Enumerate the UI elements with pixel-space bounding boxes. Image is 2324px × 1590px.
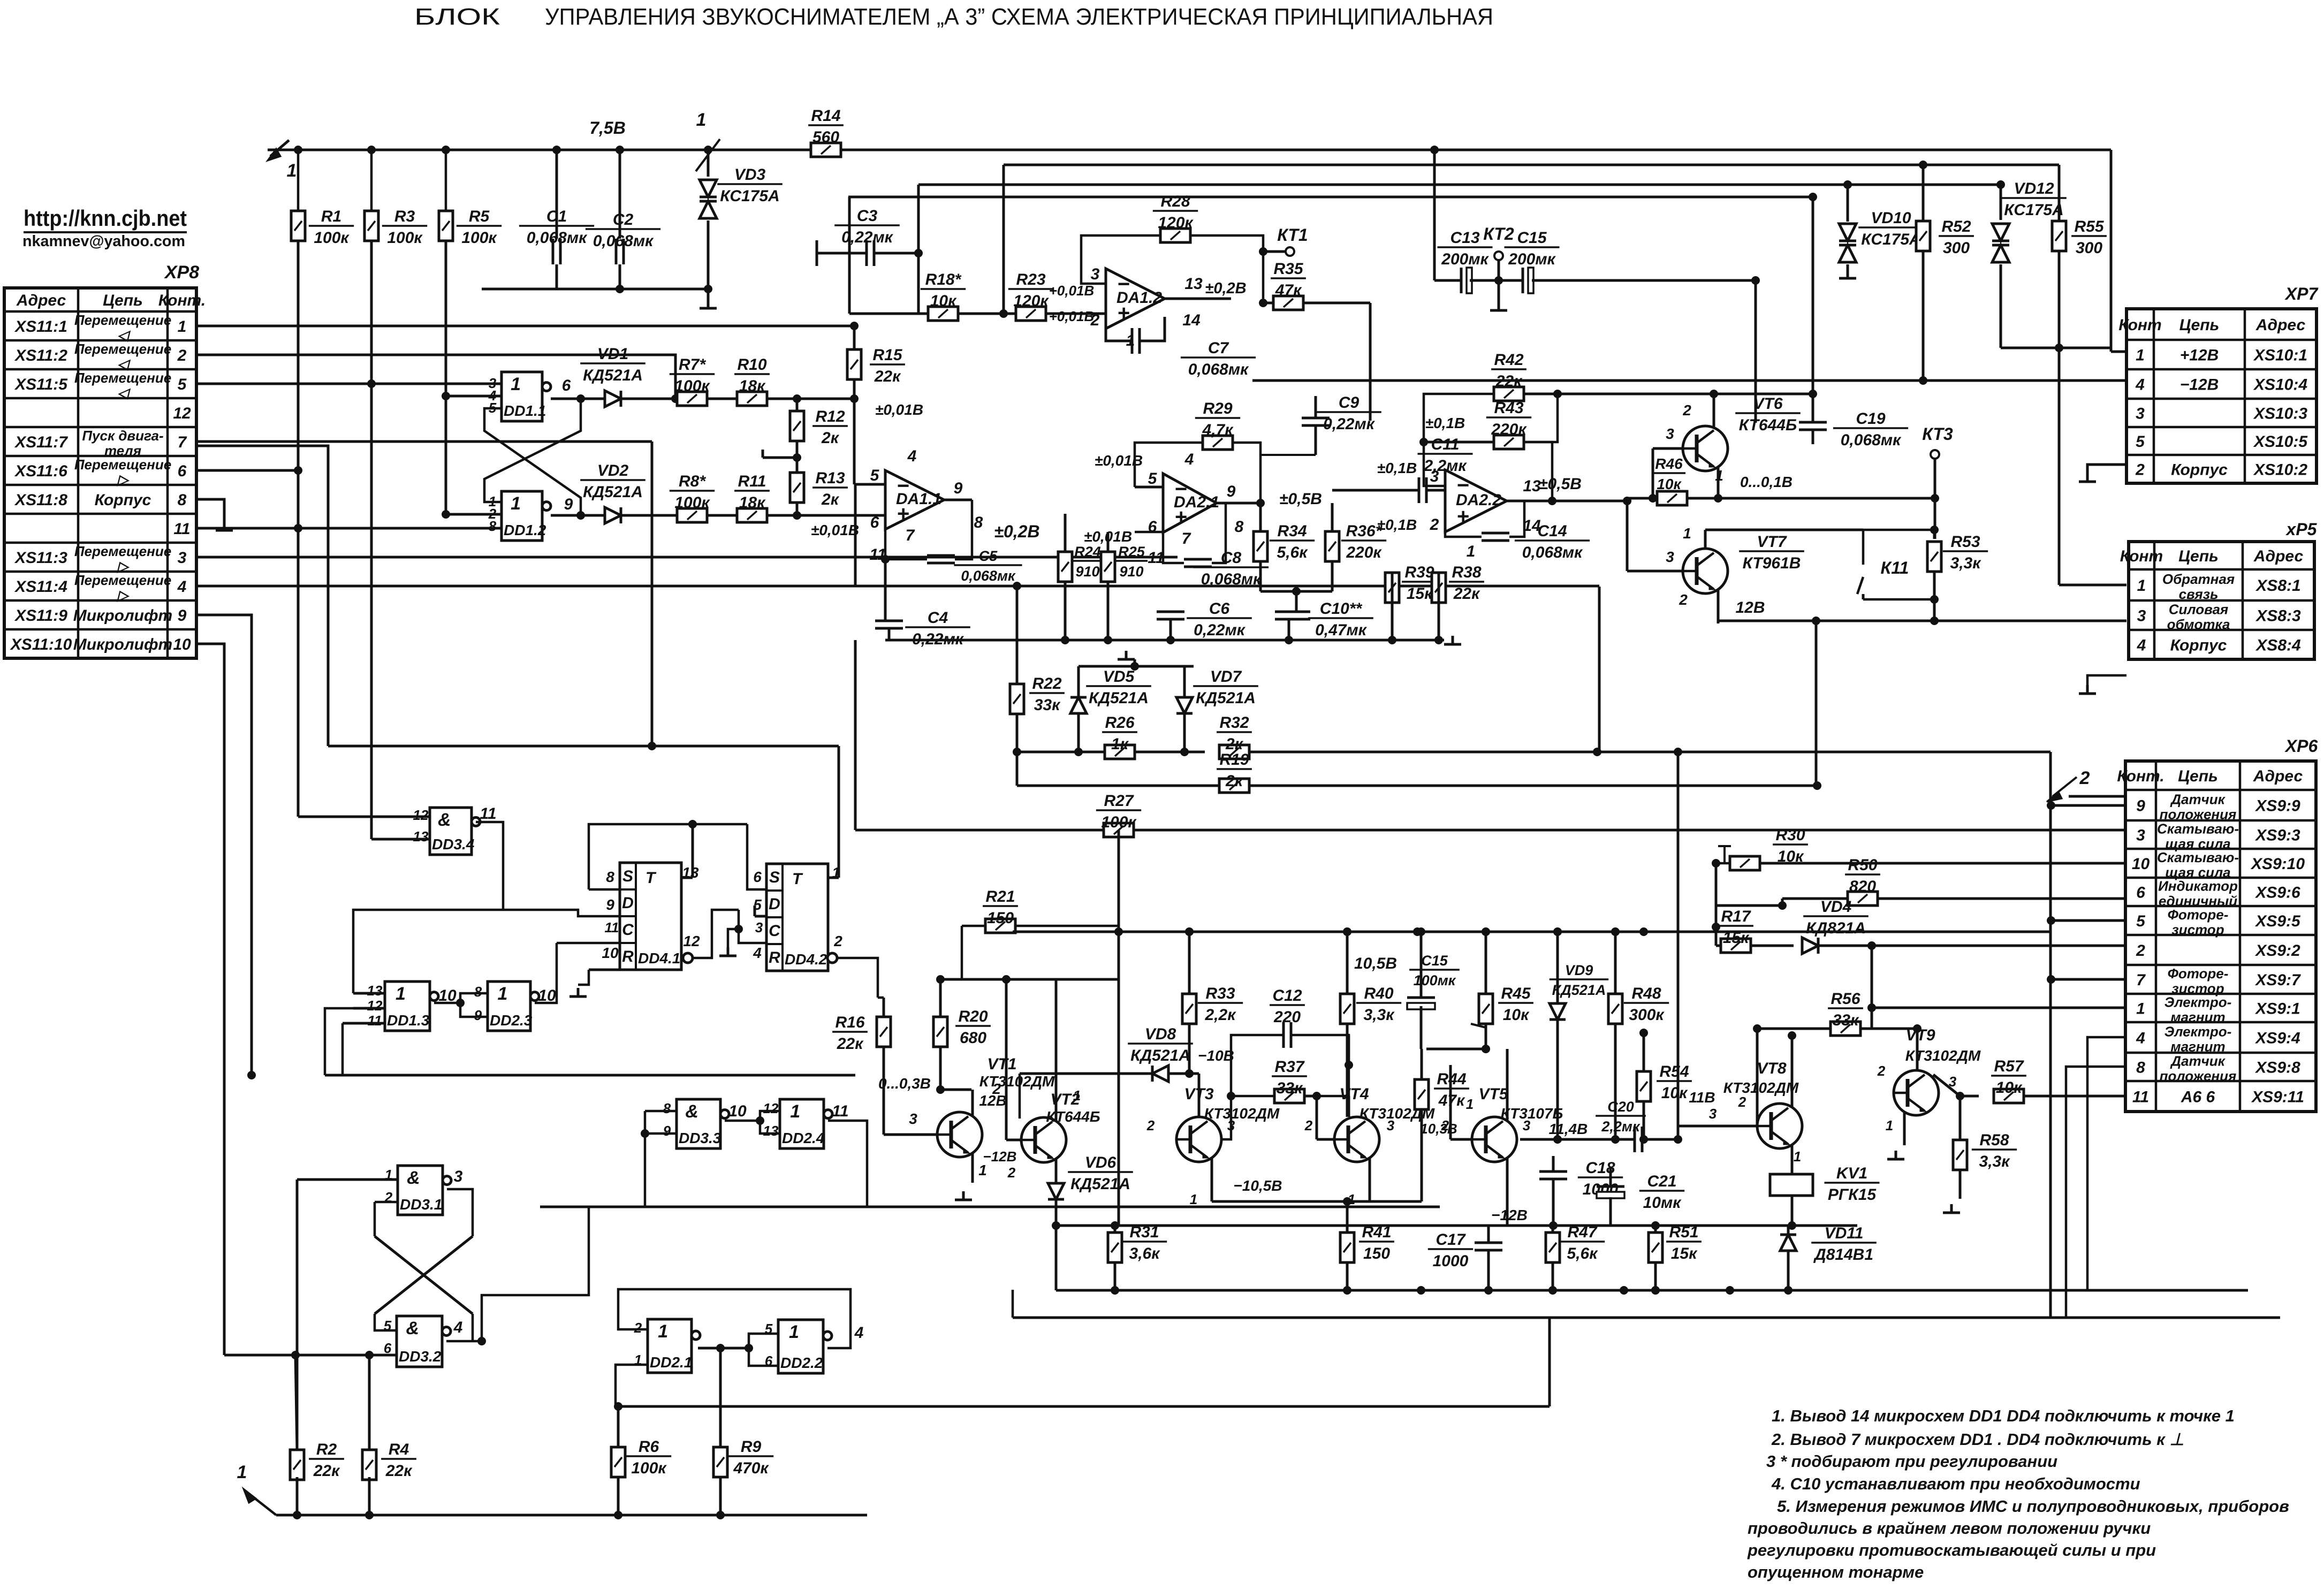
svg-text:4: 4 bbox=[907, 447, 917, 465]
svg-text:5: 5 bbox=[2136, 433, 2145, 451]
svg-text:R40: R40 bbox=[1364, 985, 1393, 1002]
svg-text:T: T bbox=[792, 870, 803, 888]
svg-text:3: 3 bbox=[1523, 1117, 1531, 1133]
svg-text:1: 1 bbox=[658, 1321, 668, 1342]
svg-text:R32: R32 bbox=[1219, 714, 1249, 732]
svg-text:D: D bbox=[769, 895, 780, 913]
svg-text:R56: R56 bbox=[1831, 990, 1860, 1008]
svg-text:8: 8 bbox=[1235, 518, 1244, 536]
svg-text:XS11:6: XS11:6 bbox=[14, 462, 67, 480]
svg-text:10: 10 bbox=[2132, 855, 2150, 873]
svg-text:регулировки противоскатывающе: регулировки противоскатывающей силы и пр… bbox=[1747, 1541, 2156, 1559]
svg-text:&: & bbox=[407, 1168, 420, 1188]
svg-text:3: 3 bbox=[1387, 1117, 1395, 1133]
svg-text:КТ961В: КТ961В bbox=[1743, 554, 1801, 572]
svg-text:Электро-: Электро- bbox=[2164, 1024, 2232, 1040]
svg-text:560: 560 bbox=[812, 128, 839, 146]
svg-text:R23: R23 bbox=[1016, 271, 1045, 288]
svg-text:КД521А: КД521А bbox=[1130, 1047, 1190, 1064]
svg-text:8: 8 bbox=[474, 984, 482, 1000]
svg-text:3 * подбирают при регулиро: 3 * подбирают при регулировании bbox=[1766, 1452, 2057, 1471]
svg-text:13: 13 bbox=[367, 983, 383, 999]
svg-text:100к: 100к bbox=[631, 1459, 667, 1477]
svg-text:Конт.: Конт. bbox=[2117, 767, 2164, 785]
svg-text:XS9:8: XS9:8 bbox=[2254, 1059, 2300, 1077]
svg-text:ХР6: ХР6 bbox=[2284, 736, 2318, 756]
svg-text:300к: 300к bbox=[1629, 1006, 1665, 1024]
svg-text:2: 2 bbox=[2135, 461, 2145, 479]
svg-text:Конт: Конт bbox=[2120, 547, 2163, 565]
svg-text:R57: R57 bbox=[1994, 1058, 2024, 1075]
svg-text:R: R bbox=[769, 949, 780, 967]
svg-text:3: 3 bbox=[909, 1110, 917, 1127]
svg-text:XS9:4: XS9:4 bbox=[2254, 1030, 2300, 1047]
svg-text:VT9: VT9 bbox=[1905, 1026, 1935, 1044]
svg-text:10к: 10к bbox=[1503, 1006, 1530, 1024]
svg-text:1000: 1000 bbox=[1433, 1252, 1469, 1270]
svg-text:R28: R28 bbox=[1160, 193, 1190, 210]
svg-text:4. С10 устанавливают при нео: 4. С10 устанавливают при необходимости bbox=[1771, 1474, 2140, 1493]
svg-text:DD2.4: DD2.4 bbox=[782, 1130, 825, 1146]
svg-text:5: 5 bbox=[1148, 470, 1158, 488]
svg-text:VD1: VD1 bbox=[597, 345, 628, 363]
svg-text:R53: R53 bbox=[1950, 533, 1980, 551]
svg-text:зистор: зистор bbox=[2171, 922, 2224, 938]
svg-text:VD4: VD4 bbox=[1820, 898, 1852, 916]
svg-text:XS10:4: XS10:4 bbox=[2253, 376, 2307, 394]
svg-text:1: 1 bbox=[832, 864, 840, 881]
svg-text:6: 6 bbox=[870, 514, 879, 531]
svg-text:XS11:7: XS11:7 bbox=[14, 433, 68, 451]
svg-text:300: 300 bbox=[2076, 239, 2102, 257]
svg-text:C1: C1 bbox=[546, 208, 567, 225]
svg-text:6: 6 bbox=[2136, 884, 2145, 902]
svg-text:10: 10 bbox=[173, 636, 191, 653]
svg-text:+12В: +12В bbox=[2180, 347, 2219, 364]
svg-text:VD8: VD8 bbox=[1145, 1025, 1176, 1043]
svg-text:Корпус: Корпус bbox=[2171, 461, 2228, 479]
svg-text:6: 6 bbox=[753, 869, 762, 885]
svg-text:3,6к: 3,6к bbox=[1129, 1245, 1161, 1262]
svg-text:−12В: −12В bbox=[1491, 1207, 1528, 1223]
svg-text:R8*: R8* bbox=[679, 473, 706, 490]
svg-text:33к: 33к bbox=[1277, 1079, 1303, 1097]
svg-text:2: 2 bbox=[1146, 1117, 1155, 1133]
svg-text:R55: R55 bbox=[2074, 218, 2104, 235]
svg-text:VT4: VT4 bbox=[1339, 1085, 1369, 1103]
svg-text:КТ1: КТ1 bbox=[1277, 225, 1308, 245]
svg-text:13: 13 bbox=[413, 828, 429, 845]
svg-text:11В: 11В bbox=[1689, 1089, 1715, 1106]
svg-text:3: 3 bbox=[755, 919, 763, 935]
svg-text:2: 2 bbox=[1304, 1117, 1313, 1133]
svg-text:Д814В1: Д814В1 bbox=[1813, 1246, 1873, 1264]
svg-text:КД521А: КД521А bbox=[1552, 982, 1606, 998]
svg-text:7: 7 bbox=[2136, 971, 2146, 989]
svg-text:22к: 22к bbox=[385, 1462, 413, 1480]
svg-text:КТ3102ДМ: КТ3102ДМ bbox=[1204, 1105, 1280, 1122]
svg-text:КД521А: КД521А bbox=[583, 483, 643, 501]
svg-text:R48: R48 bbox=[1631, 985, 1661, 1002]
svg-text:−10В: −10В bbox=[1198, 1047, 1234, 1064]
svg-text:XS9:11: XS9:11 bbox=[2251, 1089, 2304, 1106]
svg-text:XS8:1: XS8:1 bbox=[2255, 577, 2300, 595]
svg-text:XS9:2: XS9:2 bbox=[2254, 942, 2300, 960]
svg-text:14: 14 bbox=[1182, 311, 1201, 329]
svg-text:Скатываю-: Скатываю- bbox=[2157, 849, 2239, 865]
svg-text:XS10:3: XS10:3 bbox=[2253, 405, 2307, 423]
svg-text:1: 1 bbox=[1073, 1087, 1081, 1104]
svg-text:XS10:5: XS10:5 bbox=[2253, 433, 2308, 451]
svg-text:3: 3 bbox=[178, 549, 187, 567]
svg-text:VD12: VD12 bbox=[2014, 180, 2054, 197]
svg-text:6: 6 bbox=[562, 377, 571, 394]
svg-text:DD3.4: DD3.4 bbox=[432, 836, 475, 853]
svg-text:1: 1 bbox=[498, 984, 508, 1004]
svg-text:2к: 2к bbox=[821, 491, 840, 508]
svg-text:T: T bbox=[645, 869, 657, 887]
svg-text:VD3: VD3 bbox=[734, 166, 766, 184]
svg-text:9: 9 bbox=[606, 896, 614, 913]
svg-text:5: 5 bbox=[178, 376, 187, 393]
svg-text:XS8:3: XS8:3 bbox=[2255, 607, 2301, 625]
svg-text:КД821А: КД821А bbox=[1806, 919, 1866, 937]
svg-text:А6 6: А6 6 bbox=[2181, 1089, 2215, 1106]
svg-text:±0,01В: ±0,01В bbox=[875, 401, 923, 418]
svg-text:100к: 100к bbox=[461, 229, 497, 247]
svg-text:C6: C6 bbox=[1209, 600, 1230, 618]
svg-text:C15: C15 bbox=[1517, 229, 1547, 247]
svg-text:200мк: 200мк bbox=[1441, 250, 1489, 268]
svg-text:опущенном тонарме: опущенном тонарме bbox=[1748, 1563, 1924, 1581]
svg-text:3: 3 bbox=[2136, 405, 2145, 423]
svg-text:910: 910 bbox=[1119, 564, 1143, 580]
svg-text:R52: R52 bbox=[1941, 218, 1971, 235]
svg-text:11,4В: 11,4В bbox=[1549, 1121, 1588, 1137]
svg-text:±0,2В: ±0,2В bbox=[994, 522, 1039, 541]
svg-text:C7: C7 bbox=[1208, 339, 1229, 357]
svg-text:10к: 10к bbox=[1996, 1079, 2023, 1097]
svg-text:XS11:4: XS11:4 bbox=[14, 578, 67, 596]
svg-text:УПРАВЛЕНИЯ ЗВУКОСНИМАТЕЛЕМ „: УПРАВЛЕНИЯ ЗВУКОСНИМАТЕЛЕМ „А 3” СХЕМА Э… bbox=[545, 4, 1493, 30]
svg-text:▷: ▷ bbox=[117, 587, 130, 603]
svg-text:220к: 220к bbox=[1346, 544, 1382, 561]
svg-text:±0,1В: ±0,1В bbox=[1425, 415, 1465, 431]
svg-text:Индикатор: Индикатор bbox=[2158, 878, 2238, 894]
svg-text:±0,1В: ±0,1В bbox=[1377, 516, 1417, 533]
svg-text:33к: 33к bbox=[1833, 1011, 1859, 1029]
svg-text:DA1.1: DA1.1 bbox=[896, 490, 941, 508]
svg-text:R41: R41 bbox=[1362, 1223, 1391, 1241]
svg-text:Цепь: Цепь bbox=[103, 292, 143, 309]
svg-text:4,7к: 4,7к bbox=[1202, 421, 1234, 439]
svg-text:DD1.3: DD1.3 bbox=[387, 1012, 430, 1029]
svg-text:DD3.3: DD3.3 bbox=[679, 1130, 721, 1146]
svg-text:KV1: KV1 bbox=[1836, 1165, 1867, 1182]
svg-text:VD2: VD2 bbox=[597, 462, 629, 480]
svg-text:12: 12 bbox=[763, 1100, 779, 1116]
svg-text:R16: R16 bbox=[835, 1014, 864, 1031]
svg-text:Цепь: Цепь bbox=[2178, 767, 2218, 785]
svg-text:9: 9 bbox=[474, 1007, 482, 1023]
svg-text:R15: R15 bbox=[872, 346, 902, 364]
svg-text:680: 680 bbox=[960, 1029, 986, 1047]
svg-text:C17: C17 bbox=[1436, 1231, 1465, 1249]
svg-text:0...0,1В: 0...0,1В bbox=[1740, 474, 1793, 490]
svg-text:КТ3102ДМ: КТ3102ДМ bbox=[1723, 1079, 1799, 1096]
svg-text:R24: R24 bbox=[1074, 544, 1101, 560]
svg-text:C: C bbox=[622, 921, 634, 939]
svg-text:0,068мк: 0,068мк bbox=[1522, 544, 1583, 561]
svg-text:КС175А: КС175А bbox=[2004, 201, 2063, 219]
svg-text:C2: C2 bbox=[613, 211, 634, 229]
svg-text:XS11:9: XS11:9 bbox=[14, 607, 67, 625]
svg-text:R38: R38 bbox=[1452, 564, 1481, 581]
svg-text:Микролифт: Микролифт bbox=[73, 636, 172, 653]
svg-text:1к: 1к bbox=[1111, 735, 1129, 753]
svg-text:DA2.1: DA2.1 bbox=[1174, 493, 1219, 511]
svg-text:2к: 2к bbox=[821, 429, 840, 447]
svg-text:DD4.2: DD4.2 bbox=[785, 951, 827, 968]
svg-text:DD2.1: DD2.1 bbox=[650, 1354, 692, 1371]
svg-text:1. Вывод 14 микросхем DD1 DD4: 1. Вывод 14 микросхем DD1 DD4 подключить… bbox=[1772, 1406, 2235, 1425]
svg-text:1: 1 bbox=[511, 493, 521, 514]
svg-text:R19: R19 bbox=[1219, 751, 1249, 769]
svg-text:R1: R1 bbox=[321, 208, 341, 225]
svg-text:обмотка: обмотка bbox=[2167, 617, 2230, 633]
svg-text:13: 13 bbox=[1184, 275, 1203, 293]
svg-text:C19: C19 bbox=[1856, 410, 1885, 428]
svg-text:R27: R27 bbox=[1104, 792, 1134, 810]
svg-text:9: 9 bbox=[2136, 797, 2145, 815]
svg-text:47к: 47к bbox=[1275, 282, 1302, 299]
svg-text:хР5: хР5 bbox=[2285, 520, 2318, 539]
svg-text:R37: R37 bbox=[1274, 1058, 1304, 1076]
svg-text:18к: 18к bbox=[739, 377, 766, 395]
svg-text:2: 2 bbox=[833, 933, 842, 949]
svg-text:R5: R5 bbox=[469, 208, 490, 225]
svg-text:15к: 15к bbox=[1407, 585, 1433, 603]
svg-text:10к: 10к bbox=[930, 292, 957, 310]
svg-text:Корпус: Корпус bbox=[95, 491, 151, 509]
svg-text:РГК15: РГК15 bbox=[1828, 1186, 1877, 1204]
svg-text:VD10: VD10 bbox=[1871, 209, 1911, 227]
svg-text:9: 9 bbox=[1227, 483, 1236, 500]
svg-text:XS10:1: XS10:1 bbox=[2253, 347, 2307, 364]
svg-text:0,068мк: 0,068мк bbox=[1201, 570, 1262, 588]
svg-text:−12В: −12В bbox=[983, 1148, 1017, 1165]
svg-text:1: 1 bbox=[1886, 1117, 1893, 1133]
svg-text:XS11:1: XS11:1 bbox=[14, 318, 67, 336]
svg-text:R45: R45 bbox=[1501, 985, 1531, 1002]
svg-text:VD11: VD11 bbox=[1825, 1224, 1864, 1242]
svg-text:R43: R43 bbox=[1494, 399, 1523, 417]
svg-text:120к: 120к bbox=[1158, 214, 1194, 232]
svg-text:15к: 15к bbox=[1671, 1245, 1698, 1262]
svg-text:200мк: 200мк bbox=[1508, 250, 1556, 268]
svg-text:R4: R4 bbox=[389, 1441, 409, 1458]
svg-text:3: 3 bbox=[2137, 607, 2146, 625]
svg-text:C10**: C10** bbox=[1320, 600, 1363, 618]
svg-text:Фоторе-: Фоторе- bbox=[2168, 907, 2229, 923]
svg-text:3,3к: 3,3к bbox=[1979, 1153, 2011, 1170]
svg-text:R12: R12 bbox=[815, 408, 845, 425]
svg-text:4: 4 bbox=[753, 945, 762, 961]
svg-text:Электро-: Электро- bbox=[2164, 994, 2232, 1010]
svg-text:R22: R22 bbox=[1032, 675, 1061, 693]
svg-text:Конт.: Конт. bbox=[158, 292, 206, 309]
svg-text:2: 2 bbox=[1090, 311, 1100, 329]
svg-text:1: 1 bbox=[178, 318, 187, 336]
svg-text:1: 1 bbox=[1467, 543, 1476, 560]
svg-text:220: 220 bbox=[1273, 1008, 1301, 1026]
svg-text:▷: ▷ bbox=[117, 471, 130, 488]
svg-text:22к: 22к bbox=[313, 1462, 340, 1480]
svg-text:R20: R20 bbox=[958, 1008, 988, 1025]
svg-text:R42: R42 bbox=[1494, 351, 1523, 369]
svg-text:VT8: VT8 bbox=[1757, 1060, 1786, 1077]
svg-text:Датчик: Датчик bbox=[2170, 1053, 2226, 1069]
svg-text:DD3.2: DD3.2 bbox=[399, 1348, 442, 1365]
svg-text:R39: R39 bbox=[1404, 564, 1434, 581]
svg-text:0,22мк: 0,22мк bbox=[1194, 621, 1246, 639]
svg-text:Цепь: Цепь bbox=[2178, 547, 2219, 565]
svg-text:12: 12 bbox=[173, 405, 191, 422]
svg-text:2. Вывод 7 микросхем DD1 . DD: 2. Вывод 7 микросхем DD1 . DD4 подключит… bbox=[1771, 1430, 2184, 1449]
svg-text:КТ644Б: КТ644Б bbox=[1739, 416, 1797, 434]
svg-text:8: 8 bbox=[489, 518, 497, 534]
svg-text:4: 4 bbox=[2135, 376, 2145, 394]
svg-text:10,5В: 10,5В bbox=[1354, 955, 1397, 972]
svg-text:C15: C15 bbox=[1421, 953, 1448, 969]
svg-text:5: 5 bbox=[870, 467, 880, 484]
svg-text:4: 4 bbox=[177, 578, 187, 596]
svg-text:2: 2 bbox=[1007, 1165, 1016, 1181]
svg-text:Цепь: Цепь bbox=[2179, 316, 2220, 334]
svg-text:Перемещение: Перемещение bbox=[74, 543, 171, 559]
svg-text:C5: C5 bbox=[979, 548, 998, 564]
svg-text:18к: 18к bbox=[739, 494, 766, 512]
svg-text:10мк: 10мк bbox=[1643, 1194, 1682, 1212]
svg-text:R51: R51 bbox=[1669, 1223, 1698, 1241]
svg-text:положения: положения bbox=[2160, 807, 2237, 823]
svg-text:КД521А: КД521А bbox=[1070, 1175, 1130, 1193]
svg-text:R2: R2 bbox=[316, 1441, 337, 1458]
svg-text:Пуск двига-: Пуск двига- bbox=[82, 428, 163, 444]
svg-text:C3: C3 bbox=[857, 207, 878, 225]
svg-text:5,6к: 5,6к bbox=[1277, 544, 1309, 561]
svg-text:Корпус: Корпус bbox=[2170, 637, 2227, 655]
svg-text:12: 12 bbox=[683, 933, 700, 949]
svg-text:R31: R31 bbox=[1129, 1223, 1159, 1241]
svg-text:КД521А: КД521А bbox=[1196, 689, 1256, 707]
svg-text:7: 7 bbox=[1182, 530, 1191, 547]
svg-text:R46: R46 bbox=[1655, 455, 1683, 472]
svg-text:R6: R6 bbox=[639, 1438, 659, 1456]
svg-text:R30: R30 bbox=[1775, 826, 1805, 844]
svg-text:150: 150 bbox=[1363, 1245, 1390, 1262]
svg-text:11: 11 bbox=[832, 1102, 848, 1120]
svg-text:Перемещение: Перемещение bbox=[74, 572, 171, 588]
svg-text:820: 820 bbox=[1849, 878, 1876, 895]
svg-text:3: 3 bbox=[1430, 468, 1439, 485]
svg-text:3,3к: 3,3к bbox=[1950, 554, 1982, 572]
svg-text:1: 1 bbox=[396, 984, 406, 1004]
svg-text:R17: R17 bbox=[1721, 908, 1751, 925]
svg-text:XS11:10: XS11:10 bbox=[10, 636, 72, 653]
svg-text:C4: C4 bbox=[928, 609, 948, 627]
svg-text:11: 11 bbox=[173, 520, 190, 538]
svg-text:nkamnev@yahoo.com: nkamnev@yahoo.com bbox=[22, 233, 185, 250]
svg-text:1: 1 bbox=[1466, 1096, 1474, 1112]
svg-text:1: 1 bbox=[1683, 525, 1691, 542]
svg-text:1: 1 bbox=[2137, 577, 2146, 595]
svg-text:5,6к: 5,6к bbox=[1567, 1245, 1599, 1262]
svg-text:ХР8: ХР8 bbox=[164, 262, 199, 283]
svg-text:8: 8 bbox=[663, 1100, 671, 1116]
svg-text:1: 1 bbox=[696, 110, 707, 130]
svg-text:Адрес: Адрес bbox=[2253, 547, 2304, 565]
svg-text:9: 9 bbox=[954, 480, 963, 497]
svg-text:3: 3 bbox=[1709, 1106, 1717, 1122]
svg-text:DD2.3: DD2.3 bbox=[490, 1012, 533, 1029]
svg-text:Адрес: Адрес bbox=[2253, 767, 2303, 785]
svg-text:Датчик: Датчик bbox=[2170, 792, 2226, 808]
svg-text:3: 3 bbox=[1666, 549, 1674, 565]
svg-text:положения: положения bbox=[2160, 1068, 2237, 1084]
svg-text:1: 1 bbox=[287, 161, 297, 181]
svg-text:R34: R34 bbox=[1277, 522, 1307, 540]
svg-text:R29: R29 bbox=[1203, 400, 1232, 417]
svg-text:VD9: VD9 bbox=[1565, 962, 1593, 978]
svg-text:VT5: VT5 bbox=[1478, 1085, 1508, 1103]
svg-text:C12: C12 bbox=[1272, 987, 1302, 1005]
svg-text:1: 1 bbox=[1794, 1148, 1801, 1165]
svg-text:R3: R3 bbox=[394, 208, 415, 225]
svg-text:R7*: R7* bbox=[679, 356, 706, 374]
svg-text:9: 9 bbox=[564, 496, 573, 513]
svg-text:±0,5В: ±0,5В bbox=[1279, 490, 1322, 508]
svg-text:S: S bbox=[769, 869, 780, 886]
svg-text:Скатываю-: Скатываю- bbox=[2157, 821, 2239, 837]
svg-text:3: 3 bbox=[454, 1168, 463, 1185]
svg-text:22к: 22к bbox=[1453, 585, 1480, 603]
svg-text:7: 7 bbox=[906, 527, 915, 544]
svg-text:0,47мк: 0,47мк bbox=[1315, 621, 1368, 639]
svg-text:150: 150 bbox=[987, 909, 1014, 927]
svg-text:http://knn.cjb.net: http://knn.cjb.net bbox=[24, 206, 187, 231]
svg-text:C11: C11 bbox=[1431, 436, 1460, 453]
svg-text:DD2.2: DD2.2 bbox=[780, 1355, 823, 1371]
svg-text:−12В: −12В bbox=[2180, 376, 2219, 394]
svg-text:Силовая: Силовая bbox=[2169, 602, 2229, 618]
svg-text:VT6: VT6 bbox=[1753, 395, 1782, 413]
svg-text:XS11:2: XS11:2 bbox=[14, 347, 67, 364]
svg-text:&: & bbox=[438, 810, 451, 830]
svg-text:0,22мк: 0,22мк bbox=[841, 229, 894, 246]
svg-text:XS9:7: XS9:7 bbox=[2254, 971, 2301, 989]
svg-text:2: 2 bbox=[2136, 942, 2145, 960]
svg-text:XS9:10: XS9:10 bbox=[2250, 855, 2305, 873]
svg-text:R: R bbox=[622, 948, 634, 965]
svg-text:2: 2 bbox=[2079, 768, 2090, 788]
svg-text:0,068мк: 0,068мк bbox=[961, 568, 1016, 584]
svg-text:R11: R11 bbox=[738, 473, 766, 490]
svg-text:8: 8 bbox=[178, 491, 187, 509]
svg-text:0,068мк: 0,068мк bbox=[593, 232, 654, 250]
svg-text:10к: 10к bbox=[1657, 476, 1682, 492]
svg-text:C14: C14 bbox=[1537, 522, 1567, 540]
